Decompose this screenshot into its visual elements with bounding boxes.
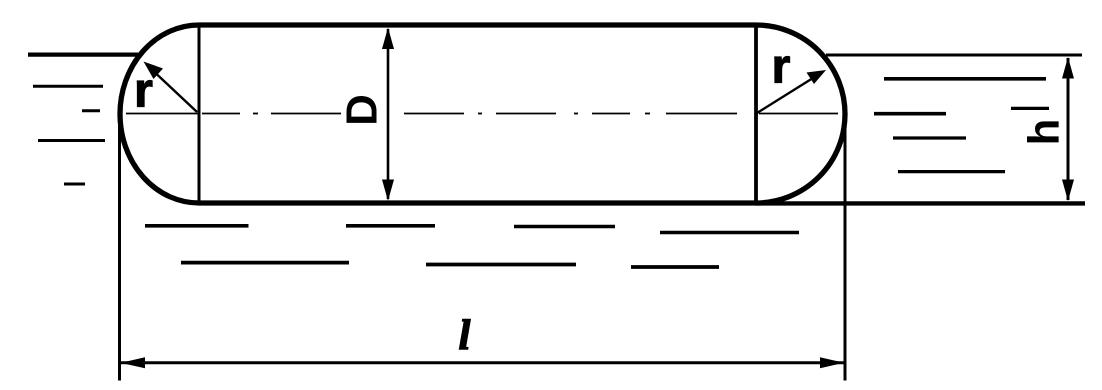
svg-text:r: r (134, 65, 153, 118)
left water surface line (28, 52, 138, 56)
left head seam line (198, 25, 201, 203)
dimension h top arrowhead (1062, 57, 1074, 79)
tank capsule outline (120, 25, 845, 203)
right radius arrowhead (807, 70, 827, 84)
svg-text:r: r (772, 41, 791, 94)
dimension D top arrowhead (382, 28, 394, 50)
centerline dash-dot (126, 113, 838, 115)
dimension l left extension line (118, 115, 121, 381)
right water hatch lines (874, 79, 1049, 172)
dimension l right extension line (844, 115, 847, 381)
dimension l left arrowhead (121, 357, 146, 368)
dimension h bottom arrowhead (1062, 180, 1074, 202)
right water surface line (826, 54, 1082, 57)
dimension D bottom arrowhead (382, 180, 394, 201)
bottom water hatch row B (181, 263, 719, 267)
bottom water hatch row A (145, 226, 799, 233)
dimension l right arrowhead (820, 357, 844, 368)
svg-text:l: l (459, 313, 471, 359)
svg-text:h: h (1020, 119, 1069, 146)
left water hatch lines (33, 86, 105, 184)
dimension l line (121, 361, 845, 364)
right head seam line (754, 25, 758, 203)
right radius arrow (757, 73, 821, 113)
bottom line extension right (756, 201, 1085, 205)
dimension D line (387, 29, 390, 199)
left radius arrowhead (144, 62, 164, 80)
left radius arrow (148, 66, 197, 112)
dimension h line (1067, 58, 1070, 200)
svg-text:D: D (338, 94, 387, 126)
